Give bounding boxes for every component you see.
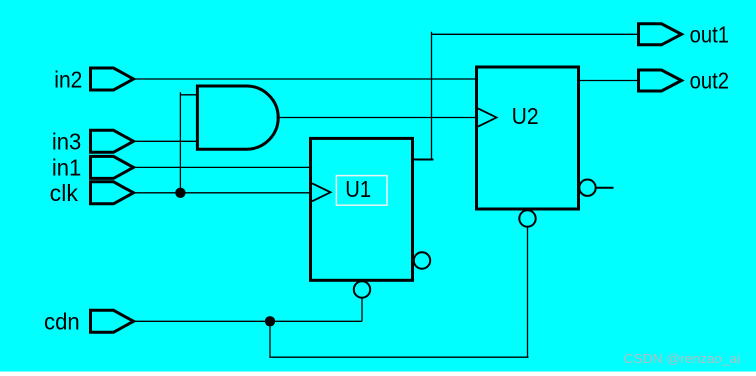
svg-text:out1: out1 [690, 21, 729, 47]
AND gate [197, 86, 278, 149]
U2 clock triangle [478, 108, 497, 126]
svg-text:clk: clk [50, 180, 79, 206]
output port out2 [639, 70, 682, 91]
flip-flop U1 body [311, 138, 413, 280]
wire in2 to U2 D input [134, 78, 479, 80]
junction cdn [265, 316, 275, 326]
input port in3 [91, 130, 134, 152]
wire U1 Q to out1 [432, 32, 639, 160]
junction clk branch [175, 188, 185, 198]
U2 right bubble [579, 180, 595, 196]
wire in3 to AND lower input [134, 140, 198, 142]
pin U1 Q output stub [413, 159, 434, 161]
svg-text:cdn: cdn [44, 309, 80, 335]
input port in1 [91, 156, 134, 178]
output port out1 [639, 24, 682, 45]
svg-text:U1: U1 [345, 176, 371, 202]
svg-text:out2: out2 [690, 68, 729, 94]
bottom white strip [0, 372, 756, 376]
flip-flop U2 body [477, 67, 579, 209]
wire U1 bottom bubble to cdn [361, 299, 363, 322]
wire clk to U1 clock input [134, 192, 311, 194]
wire U2 Q to out2 [579, 80, 639, 82]
U1 label box [336, 176, 387, 206]
input port cdn [91, 310, 134, 332]
input port clk [91, 182, 134, 204]
U2 bottom bubble [519, 210, 535, 226]
svg-text:in3: in3 [52, 129, 81, 155]
U1 clock triangle [312, 183, 331, 201]
U1 bottom bubble [354, 281, 370, 297]
svg-text:in2: in2 [54, 66, 82, 92]
pin U2 QN stub [596, 187, 614, 189]
svg-text:in1: in1 [52, 155, 81, 181]
wire AND output to U2 clock input [277, 117, 479, 119]
U1 right bubble [414, 252, 430, 268]
wire cdn horizontal [134, 320, 363, 322]
wire in1 to U1 D input [134, 166, 311, 168]
wire clk branch vertical to AND upper input [180, 92, 197, 193]
input port in2 [91, 68, 134, 90]
svg-text:U2: U2 [512, 103, 539, 129]
svg-text:CSDN @renzao_ai: CSDN @renzao_ai [624, 351, 741, 366]
wire cdn branch to U2 bottom bubble [270, 227, 529, 357]
